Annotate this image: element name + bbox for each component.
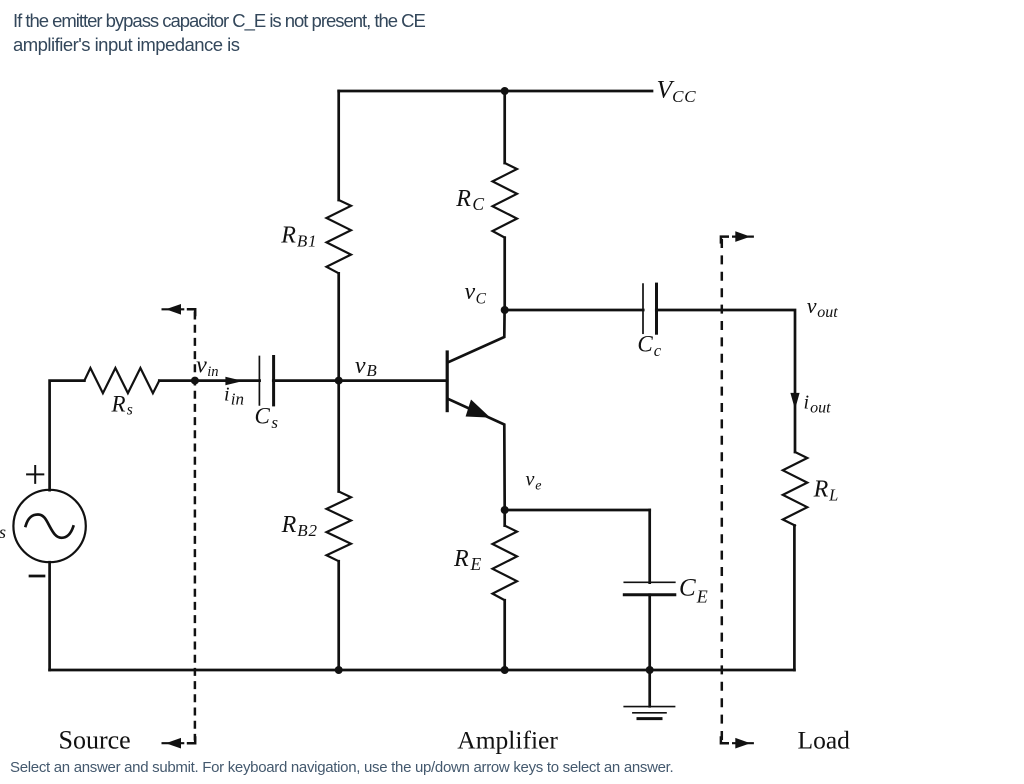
svg-text:Rs: Rs	[111, 392, 133, 419]
resistor Rs	[84, 368, 159, 393]
svg-text:vC: vC	[465, 279, 487, 307]
transistor Q1 emitter	[449, 399, 505, 510]
svg-text:Cs: Cs	[255, 404, 279, 433]
capacitor Cc	[642, 284, 644, 333]
svg-text:RL: RL	[813, 477, 839, 505]
wire bottom rail	[50, 669, 795, 672]
arrowhead right top	[735, 231, 750, 242]
wire CE top	[648, 510, 651, 583]
svg-text:RB1: RB1	[280, 222, 317, 250]
plus sign	[27, 466, 43, 483]
wire top rail Vcc	[339, 90, 652, 93]
transistor Q1 base bar	[446, 352, 449, 411]
capacitor CE	[624, 581, 675, 583]
node dot RB2 bottom	[335, 666, 343, 674]
svg-text:Cc: Cc	[637, 332, 661, 361]
svg-text:vin: vin	[196, 352, 218, 380]
footer text	[10, 759, 673, 776]
wire RB2 top	[337, 381, 340, 492]
node dot ground	[646, 666, 654, 674]
node dot v_C	[501, 306, 509, 314]
question text	[13, 9, 573, 57]
svg-text:vB: vB	[355, 353, 377, 380]
minus sign	[30, 575, 44, 578]
svg-text:vout: vout	[807, 293, 839, 321]
wire Rs to Cs	[159, 379, 259, 382]
resistor RB2	[327, 492, 352, 562]
resistor RL	[783, 452, 808, 526]
svg-text:CE: CE	[679, 575, 708, 607]
arrow i_in	[225, 377, 243, 386]
svg-text:iout: iout	[804, 392, 832, 417]
dashed boundary source/amplifier	[162, 309, 196, 743]
node dot RE bottom	[501, 666, 509, 674]
wire RC bottom to vC	[503, 238, 506, 310]
node dot v_B	[335, 377, 343, 385]
resistor RE	[493, 526, 518, 601]
svg-text:Amplifier: Amplifier	[457, 725, 558, 754]
svg-text:RB2: RB2	[281, 512, 318, 540]
svg-text:Source: Source	[59, 725, 131, 754]
wire Cc to vout corner	[656, 310, 795, 452]
wire RE bottom	[503, 600, 506, 670]
wire Cs to base	[273, 379, 447, 382]
wire source top to Rs	[50, 381, 85, 491]
dashed boundary amplifier/load	[721, 237, 754, 744]
wire RB1 bottom to vB	[337, 273, 340, 380]
wire vC to Cc	[505, 309, 644, 312]
node dot v_E	[501, 506, 509, 514]
svg-text:s: s	[0, 522, 6, 542]
svg-text:iin: iin	[224, 384, 244, 409]
transistor Q1 emitter arrow	[466, 400, 491, 418]
arrow i_out	[790, 393, 799, 410]
arrowhead left top	[166, 304, 181, 315]
resistor RB1	[327, 200, 352, 273]
wire source bottom	[48, 562, 51, 670]
wire RB1 top	[337, 91, 340, 200]
node dot Vcc	[501, 87, 509, 95]
wire RC top	[503, 91, 506, 163]
svg-text:RE: RE	[453, 546, 481, 574]
resistor RC	[493, 163, 518, 238]
ground	[648, 670, 651, 706]
wire RL bottom	[793, 526, 796, 671]
arrowhead right bottom	[735, 738, 750, 749]
source sine	[26, 515, 74, 538]
arrowhead left bottom	[166, 738, 181, 749]
svg-text:RC: RC	[455, 186, 484, 214]
transistor Q1 collector	[449, 310, 505, 362]
node dot v_in	[191, 377, 199, 385]
capacitor Cs	[258, 357, 260, 405]
wire RB2 bottom	[337, 561, 340, 670]
svg-text:Load: Load	[798, 725, 851, 754]
svg-text:VCC: VCC	[657, 74, 697, 106]
wire CE bottom	[648, 595, 651, 670]
wire vE to CE	[505, 509, 650, 512]
wire RE top	[503, 510, 506, 526]
source Vs circle	[13, 490, 85, 562]
svg-text:ve: ve	[526, 469, 542, 494]
